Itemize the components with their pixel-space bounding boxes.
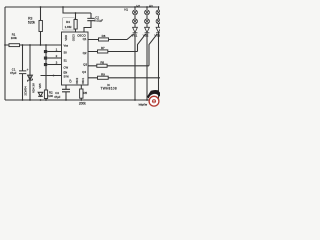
svg-text:100: 100 (48, 94, 53, 98)
svg-text:CP: CP (69, 79, 72, 83)
svg-text:H2: H2 (136, 4, 140, 8)
wire node row (5, 44, 62, 46)
lamp H1 column (124, 7, 137, 27)
wire pin bottom (41, 75, 62, 77)
resistor R8 (88, 34, 157, 67)
wire left rail (4, 7, 6, 100)
svg-text:OSC1: OSC1 (82, 77, 85, 84)
svg-text:H1: H1 (124, 7, 128, 11)
svg-text:OSCI: OSCI (72, 34, 76, 41)
resistor R4 (63, 13, 78, 32)
lamp H3 column (149, 4, 161, 27)
svg-text:Vss: Vss (64, 43, 69, 47)
resistor R1 (9, 33, 20, 47)
svg-text:S0: S0 (64, 51, 68, 55)
thyristor VS2 (143, 27, 150, 100)
svg-text:R6: R6 (102, 34, 106, 38)
svg-text:100k: 100k (11, 36, 18, 40)
svg-text:Q4: Q4 (82, 70, 86, 74)
svg-text:VS2: VS2 (143, 34, 149, 38)
IC pin labels (64, 33, 88, 84)
wire pin1 (47, 51, 61, 53)
resistor R2 (44, 45, 53, 100)
svg-text:0.01µF: 0.01µF (94, 19, 103, 23)
svg-text:VS3: VS3 (154, 34, 160, 38)
svg-text:47µF: 47µF (54, 95, 61, 99)
svg-text:VD5: VD5 (38, 83, 42, 89)
capacitor C3 (54, 85, 70, 100)
wire R4 branch (63, 7, 91, 13)
thyristor VS3 (154, 27, 161, 100)
svg-text:R9: R9 (101, 72, 105, 76)
svg-text:47µF: 47µF (10, 71, 17, 75)
svg-text:R5: R5 (83, 91, 87, 95)
svg-text:http//w: http//w (139, 102, 148, 106)
capacitor C1 (10, 45, 29, 100)
svg-text:Q1: Q1 (83, 37, 87, 41)
svg-text:Q2: Q2 (83, 51, 87, 55)
wire top rail (5, 6, 158, 8)
svg-text:1.8M: 1.8M (65, 25, 72, 29)
resistor R6 (88, 34, 134, 41)
diode VD5 (38, 83, 43, 96)
svg-text:Q3: Q3 (83, 62, 87, 66)
resistor R3 (28, 7, 42, 45)
resistor R7 (88, 34, 146, 53)
svg-text:VD4 3V: VD4 3V (32, 83, 36, 93)
capacitor C2 (84, 13, 103, 32)
svg-text:R4: R4 (66, 20, 70, 24)
zener diode VD1 (24, 45, 36, 100)
svg-text:2CW54: 2CW54 (24, 86, 28, 96)
svg-text:SYN: SYN (64, 76, 69, 79)
svg-text:S1: S1 (64, 58, 68, 62)
resistor R5 (79, 85, 88, 105)
wire pin3 (47, 64, 61, 66)
watermark logo (139, 90, 160, 106)
svg-text:VS1: VS1 (132, 34, 138, 38)
svg-text:H3: H3 (149, 4, 153, 8)
svg-text:VDD: VDD (64, 35, 68, 41)
svg-text:CW: CW (64, 66, 69, 70)
svg-text:200k: 200k (79, 101, 86, 105)
switch contact squares (44, 50, 47, 53)
wire pin2 (47, 57, 61, 59)
resistor R9 (88, 72, 160, 79)
svg-text:620k: 620k (28, 20, 36, 24)
svg-text:R8: R8 (100, 60, 104, 64)
svg-text:TWH8108: TWH8108 (100, 87, 116, 91)
svg-text:R7: R7 (101, 46, 105, 50)
wire bottom rail (5, 99, 158, 101)
svg-text:OSC2: OSC2 (76, 77, 79, 84)
IC U1 TWH8108 box (62, 32, 89, 85)
svg-text:EN: EN (64, 70, 68, 74)
thyristor VS1 (132, 27, 138, 100)
lamp H2 column (136, 4, 149, 27)
svg-text:+: + (27, 68, 29, 72)
junction dots (4, 6, 159, 101)
